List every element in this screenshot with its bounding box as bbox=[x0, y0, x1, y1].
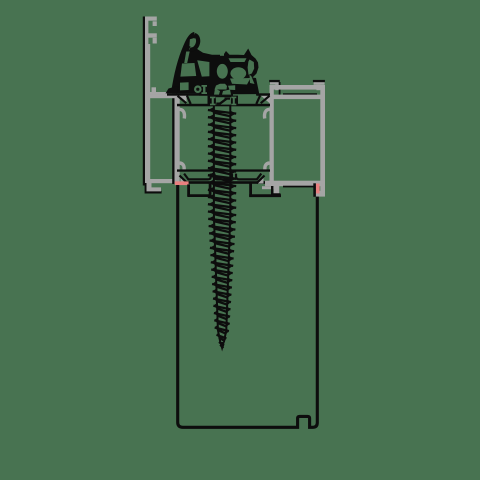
screw core left bbox=[214, 106, 220, 342]
right profile right wall bbox=[320, 85, 325, 197]
foot line d bbox=[209, 184, 212, 196]
screw head slash zone bbox=[216, 97, 231, 104]
bottom band left trapezoid bbox=[184, 174, 211, 180]
gasket eyelet center bbox=[196, 88, 199, 91]
right wall lower hook bbox=[265, 163, 270, 171]
bottom band mid trapezoid bbox=[215, 174, 233, 180]
screw thread teeth bbox=[208, 107, 236, 349]
gasket bar-ring sliver hole bbox=[229, 58, 247, 62]
glazing bead vertical web upper bbox=[145, 17, 148, 45]
gasket quad hole bbox=[197, 60, 209, 76]
screw dome lens hole bbox=[215, 84, 228, 90]
gasket eyelet green bbox=[194, 85, 202, 93]
gasket loop bbox=[190, 35, 198, 50]
screw thread crest lines bbox=[208, 110, 236, 348]
bottom band upper black line bbox=[177, 169, 270, 171]
top band flange wedge bbox=[177, 95, 187, 103]
right profile bottom leg bbox=[274, 186, 280, 195]
right profile left stub hook bbox=[275, 85, 279, 91]
left wall upper hook bbox=[180, 109, 185, 118]
base panel top edge left segment bbox=[187, 194, 211, 197]
top band right diagonal inner bbox=[256, 96, 260, 104]
right profile right top stub bbox=[314, 81, 325, 85]
gasket under-sweep strip bbox=[233, 94, 257, 97]
gasket under-ring sliver hole bbox=[230, 78, 251, 85]
left wall lower hook bbox=[180, 163, 185, 171]
right foot black edge bbox=[313, 183, 316, 197]
bottom band right trapezoid bbox=[236, 174, 261, 180]
top band upper black line bbox=[167, 93, 270, 95]
bottom band left corner gray bbox=[181, 177, 188, 184]
top band flange gray bbox=[150, 95, 187, 99]
gasket under-dome wedge left bbox=[214, 89, 220, 95]
top band left diagonal inner bbox=[187, 96, 191, 104]
gasket neck sliver hole bbox=[184, 52, 190, 64]
glazing bead top arm hook bbox=[153, 21, 157, 26]
gasket hook outer green bbox=[250, 75, 255, 85]
gasket under-dome wedge right bbox=[222, 90, 231, 95]
right profile inner bar top edge bbox=[283, 93, 317, 95]
top band right wedge bbox=[261, 96, 270, 104]
glazing bead outline (black left edge) bbox=[143, 17, 145, 186]
right wall upper hook bbox=[265, 109, 270, 118]
screw tip bbox=[220, 342, 225, 352]
screw head slash bbox=[216, 99, 230, 104]
glazing bead bottom flange bbox=[145, 179, 176, 183]
frame right wall bbox=[270, 85, 274, 185]
bottom band lower black line bbox=[187, 181, 271, 184]
screw dome right patch hole bbox=[228, 85, 235, 90]
bottom band right corner gray bbox=[257, 177, 264, 184]
frame left wall bbox=[175, 94, 180, 185]
gasket big left hole bbox=[180, 63, 196, 77]
gasket loop hole bbox=[189, 38, 194, 46]
right profile bottom bar left patch bbox=[262, 186, 274, 189]
right profile top bar bbox=[270, 85, 325, 90]
right profile left stub cap bbox=[269, 80, 280, 82]
gasket round hole bbox=[217, 64, 228, 79]
glazing bead second arm bbox=[145, 33, 157, 37]
glazing bead top arm bbox=[145, 17, 157, 21]
right profile bottom bar bbox=[265, 181, 325, 187]
glazing bead foot outline bbox=[145, 183, 162, 194]
right bar underline bbox=[283, 186, 315, 188]
screw head block bbox=[208, 96, 239, 106]
gasket lower left hole bbox=[180, 82, 189, 90]
right profile right stub cap bbox=[313, 80, 325, 82]
screw core right bbox=[224, 106, 230, 342]
base panel outline bbox=[178, 185, 318, 427]
gasket pad left (red) bbox=[175, 181, 189, 185]
right profile inner bar bbox=[270, 95, 325, 100]
frame left wall black edge bbox=[172, 95, 174, 184]
glazing bead foot bbox=[147, 183, 162, 191]
gasket I-beam hole bbox=[202, 85, 208, 94]
gasket main mass bbox=[176, 48, 259, 96]
base panel top edge right segment bbox=[249, 194, 281, 197]
glazing bead vertical web bbox=[145, 44, 150, 184]
foot line c bbox=[249, 182, 252, 196]
gasket hook inner hole bbox=[248, 60, 255, 75]
gasket pad right (red) bbox=[316, 184, 320, 194]
right profile foot bbox=[315, 191, 325, 197]
gasket foot wedge bbox=[166, 86, 179, 93]
gasket ring hole bbox=[230, 67, 246, 79]
gasket swan neck bbox=[175, 35, 195, 92]
top band lower black line bbox=[177, 104, 270, 107]
bottom band right corner diagonal bbox=[257, 176, 265, 184]
foot line a bbox=[187, 184, 190, 196]
gasket bar notch hole bbox=[220, 52, 224, 56]
right profile bottom leg outline bbox=[271, 186, 281, 195]
screw head right I hole bbox=[231, 97, 236, 106]
glazing bead lower tick bbox=[152, 87, 157, 92]
right profile left stub edge bbox=[279, 82, 281, 95]
screw head left I hole bbox=[210, 97, 216, 106]
glazing bead top flange bbox=[145, 92, 172, 96]
right profile right stub leg bbox=[316, 85, 320, 90]
right profile left top stub bbox=[270, 81, 279, 84]
glazing bead second arm hook bbox=[153, 38, 157, 44]
top band right diagonal outer bbox=[261, 96, 270, 103]
bottom band left corner diagonal bbox=[180, 176, 188, 184]
top band left diagonal outer bbox=[178, 96, 187, 103]
